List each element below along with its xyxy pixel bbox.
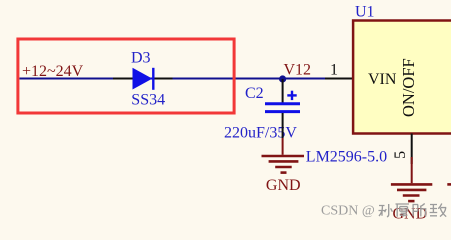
svg-text:SS34: SS34 — [131, 92, 165, 109]
capacitor C2 plates — [265, 102, 300, 105]
ground bar fragment at right edge — [447, 183, 451, 186]
red highlight rectangle — [18, 39, 234, 113]
wire: +12~24V net, horizontal run to U1 — [20, 78, 326, 80]
watermark CJK glyph 2 — [396, 204, 410, 217]
svg-text:5: 5 — [392, 151, 409, 159]
svg-text:LM2596-5.0: LM2596-5.0 — [306, 149, 387, 166]
watermark CJK glyph 1 — [379, 204, 393, 217]
svg-text:GND: GND — [266, 177, 301, 194]
diode D3 anode pin — [113, 78, 133, 80]
ground power port stem (left) — [282, 138, 284, 155]
svg-text:D3: D3 — [131, 50, 151, 67]
node V12 junction dot — [279, 75, 286, 82]
capacitor C2 plus sign — [287, 94, 296, 96]
svg-text:CSDN @: CSDN @ — [321, 204, 375, 219]
ground bars (left GND) — [262, 155, 305, 158]
svg-text:C2: C2 — [245, 85, 264, 102]
pin 5 wire — [411, 134, 413, 165]
watermark CJK glyph 3 — [413, 204, 427, 217]
pin 1 wire into U1 — [325, 78, 354, 80]
svg-text:U1: U1 — [355, 3, 375, 20]
op-amp U1 regulator body — [353, 21, 451, 134]
svg-text:220uF/35V: 220uF/35V — [224, 124, 297, 141]
capacitor C2 bottom pin — [282, 113, 284, 138]
capacitor C2 top pin — [282, 79, 284, 103]
svg-text:ON/OFF: ON/OFF — [399, 58, 418, 117]
watermark CJK glyph 4 — [430, 204, 447, 217]
svg-text:V12: V12 — [284, 61, 312, 78]
svg-text:1: 1 — [330, 62, 338, 79]
svg-text:VIN: VIN — [368, 71, 397, 88]
ground bars (right GND) — [391, 183, 432, 186]
diode D3 cathode bar — [152, 68, 154, 90]
diode D3 body — [133, 68, 153, 90]
diode D3 cathode pin — [154, 78, 173, 80]
ground power port stem (right) — [411, 157, 413, 183]
svg-text:+12~24V: +12~24V — [22, 63, 84, 80]
